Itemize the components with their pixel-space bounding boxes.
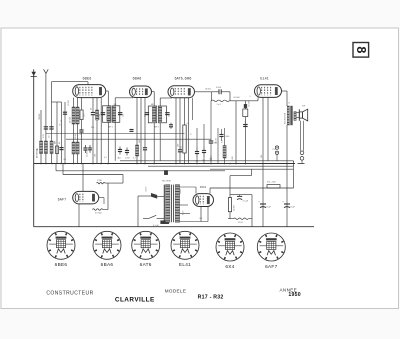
line capacitor 0.1uF: [161, 221, 169, 224]
wire: [136, 156, 138, 164]
svg-text:0,1: 0,1: [222, 140, 224, 143]
HT rail upper: [120, 160, 294, 162]
wire: [267, 97, 269, 160]
capacitor C20: [209, 141, 214, 143]
output transformer core: [291, 106, 293, 125]
svg-text:0,1 µF: 0,1 µF: [153, 225, 159, 227]
svg-text:6BA6: 6BA6: [133, 77, 142, 81]
svg-text:100: 100: [178, 144, 180, 147]
wire: [96, 120, 98, 164]
tube 6AF7: [73, 191, 99, 204]
svg-text:80: 80: [59, 142, 61, 144]
wire: [302, 121, 304, 151]
trimmer C9: [91, 113, 95, 115]
wire: [107, 183, 109, 209]
svg-text:50: 50: [203, 160, 205, 162]
wire: [40, 110, 42, 164]
wire: [106, 90, 109, 92]
svg-text:300: 300: [91, 127, 94, 129]
svg-text:20.000: 20.000: [205, 89, 211, 91]
svg-text:0,5: 0,5: [64, 159, 67, 161]
wire: [151, 91, 154, 93]
schematic frame left edge: [33, 76, 35, 227]
wire: [286, 125, 288, 227]
svg-text:8: 8: [354, 46, 368, 53]
HT rail lower: [148, 165, 294, 167]
socket 6BE6: [47, 231, 75, 259]
capacitor C13: [118, 147, 122, 155]
wire: [92, 115, 94, 164]
IF transformer T2 right loop: [159, 106, 167, 123]
coil L1: [40, 141, 43, 154]
wire: [51, 82, 53, 164]
svg-text:MODELE: MODELE: [165, 288, 187, 293]
resistor VDR: [233, 218, 248, 219]
wire: [300, 121, 302, 151]
IFT1 primary coil: [107, 107, 110, 121]
svg-text:125: 125: [98, 114, 100, 117]
terminal: [300, 157, 304, 161]
capacitor C19: [202, 147, 206, 157]
svg-text:6AT6: 6AT6: [140, 262, 152, 267]
wire: [229, 176, 231, 198]
wire: [114, 98, 116, 106]
svg-text:25 µF: 25 µF: [245, 120, 247, 126]
wire: [87, 82, 89, 85]
svg-text:0,1: 0,1: [104, 157, 107, 159]
svg-text:H.P.: H.P.: [302, 106, 306, 108]
wire: [159, 123, 161, 161]
wire: [196, 158, 198, 164]
capacitor C24: [243, 125, 248, 127]
wire: [144, 150, 146, 164]
IFT2 left capacitor: [145, 113, 149, 115]
wire: [64, 102, 66, 164]
svg-text:TERRE: TERRE: [39, 113, 41, 120]
oscillator coil L4: [72, 142, 75, 154]
svg-text:MF1: MF1: [151, 104, 155, 106]
wire: [77, 154, 79, 164]
wire: [257, 97, 259, 100]
wire: [122, 175, 124, 184]
wire: [92, 98, 94, 112]
svg-text:SECTEUR: SECTEUR: [162, 181, 172, 183]
wire: [175, 98, 177, 164]
svg-text:MF 1: MF 1: [109, 127, 113, 129]
wire: [61, 102, 63, 164]
secondary tap: [180, 186, 196, 188]
capacitor C14: [125, 148, 129, 156]
wire: [115, 97, 133, 99]
IFT1 left capacitor: [101, 113, 105, 115]
wire: [114, 122, 116, 161]
svg-text:25.000: 25.000: [86, 151, 88, 157]
svg-text:0,1: 0,1: [196, 161, 199, 163]
capacitor C18: [195, 148, 199, 158]
AVC line: [46, 133, 185, 135]
padder C4: [56, 146, 59, 154]
wire: [153, 123, 155, 164]
transformer core: [171, 185, 173, 223]
wire: [55, 164, 57, 171]
wire: [250, 169, 252, 175]
AVC line 2: [66, 138, 211, 140]
socket 6BA6: [93, 231, 121, 259]
wire: [203, 157, 205, 164]
wire: [136, 98, 138, 146]
svg-text:P.U.: P.U.: [273, 149, 277, 151]
svg-text:125: 125: [123, 114, 125, 117]
svg-text:200: 200: [261, 155, 263, 158]
capacitor C12: [143, 148, 147, 150]
svg-text:6X4: 6X4: [200, 185, 206, 189]
socket 6AT6: [132, 231, 160, 259]
tube 6AT6: [168, 86, 195, 98]
svg-text:6X4: 6X4: [225, 264, 234, 269]
svg-text:EL41: EL41: [260, 77, 269, 81]
output transformer secondary: [294, 112, 296, 121]
wire: [99, 197, 104, 199]
wire: [82, 164, 84, 192]
svg-text:6,3 V: 6,3 V: [183, 210, 185, 215]
svg-text:150 + 600: 150 + 600: [267, 182, 277, 184]
wire: [262, 97, 264, 227]
page index box: [353, 43, 369, 58]
svg-text:300: 300: [139, 140, 141, 143]
capacitor C8: [80, 110, 83, 120]
transformer secondary winding: [175, 185, 179, 223]
wire: [210, 92, 212, 101]
coupling capacitor C21: [211, 89, 230, 94]
coil L3: [50, 141, 53, 154]
svg-text:6AF7: 6AF7: [58, 198, 66, 202]
svg-text:440: 440: [54, 141, 56, 144]
IFT1 right capacitor: [118, 113, 122, 115]
wire: [100, 98, 102, 164]
svg-text:R17 - R32: R17 - R32: [198, 295, 224, 301]
wire: [77, 124, 79, 142]
wire: [184, 98, 186, 125]
svg-text:125: 125: [144, 114, 146, 117]
filter capacitor 8uF: [260, 204, 266, 208]
AF line 2: [63, 174, 123, 176]
wire: [229, 100, 258, 102]
svg-text:20.000: 20.000: [70, 116, 72, 123]
svg-text:8 µF: 8 µF: [267, 207, 272, 209]
svg-text:0,5 µF: 0,5 µF: [243, 201, 249, 203]
svg-text:0,5: 0,5: [187, 123, 190, 125]
svg-text:EL41: EL41: [179, 262, 191, 267]
svg-text:50: 50: [80, 134, 82, 136]
wire: [230, 175, 251, 177]
svg-text:8 µF: 8 µF: [291, 207, 296, 209]
wire: [103, 204, 105, 210]
wire: [52, 101, 62, 103]
svg-text:2x300: 2x300: [180, 189, 182, 194]
filter capacitor 8uF: [284, 204, 290, 208]
resistor R6 bead: [244, 101, 246, 105]
svg-text:6BE6: 6BE6: [55, 262, 68, 267]
wire: [107, 91, 109, 106]
IFT1 secondary coil: [113, 107, 116, 121]
wire: [229, 92, 231, 101]
switch arm: [143, 217, 149, 219]
svg-text:50: 50: [61, 120, 63, 122]
secondary tap: [180, 213, 190, 215]
wire: [171, 97, 173, 99]
resistor R3 50k: [96, 110, 99, 120]
speaker HP: [299, 109, 307, 121]
resistor R2: [76, 107, 79, 124]
wire: [81, 120, 83, 131]
wire: [179, 152, 181, 164]
grid top wire: [52, 81, 89, 83]
wire: [62, 164, 64, 175]
resistor R10 1M: [97, 182, 105, 184]
antenna A: [44, 69, 49, 163]
svg-text:6AT6, 6M6: 6AT6, 6M6: [175, 77, 192, 81]
wire: [229, 212, 231, 219]
svg-text:V.D.R.: V.D.R.: [238, 222, 244, 224]
junction dots: [40, 163, 42, 165]
capacitor C15: [130, 130, 134, 132]
resistor R4: [136, 145, 139, 156]
capacitor C16: [169, 123, 173, 129]
coil L2: [44, 141, 47, 154]
tube 6X4: [193, 194, 214, 207]
capacitor C11: [88, 145, 92, 153]
PU terminal: [275, 151, 278, 154]
IF transformer T1 left loop: [103, 106, 112, 123]
svg-text:0,5 MΩ: 0,5 MΩ: [95, 213, 102, 215]
wire: [78, 204, 80, 227]
capacitor C22: [237, 195, 242, 200]
wire: [210, 156, 212, 161]
svg-text:2.000: 2.000: [232, 156, 234, 161]
wire: [96, 98, 98, 110]
svg-text:5-25: 5-25: [43, 134, 45, 138]
wire: [56, 102, 58, 164]
svg-text:125: 125: [169, 114, 171, 117]
resistor R1 20k: [72, 107, 75, 124]
svg-text:1.000: 1.000: [225, 136, 230, 138]
svg-text:CLARVILLE: CLARVILLE: [115, 296, 155, 303]
svg-text:50: 50: [91, 108, 93, 110]
wire: [73, 154, 75, 164]
wire: [200, 207, 202, 222]
loop wire: [230, 194, 252, 196]
trimmer CV1: [44, 127, 48, 129]
wire: [301, 160, 303, 163]
output transformer primary: [287, 106, 289, 125]
capacitor C23: [219, 135, 223, 137]
resistor R5: [223, 146, 226, 159]
svg-text:EXCITATION: EXCITATION: [284, 112, 287, 124]
svg-text:CONSTRUCTEUR: CONSTRUCTEUR: [46, 290, 93, 296]
junction capacitor: [164, 170, 167, 174]
wire: [81, 132, 83, 164]
svg-text:10.000: 10.000: [249, 100, 251, 107]
wire: [195, 91, 212, 93]
svg-text:6AF7: 6AF7: [265, 264, 277, 269]
wire: [293, 169, 295, 188]
tube 6BA6: [130, 86, 152, 98]
secondary tap: [180, 221, 208, 223]
HT branch rail: [210, 168, 294, 170]
ground bus: [34, 163, 295, 165]
IFT2 right capacitor: [165, 113, 169, 115]
wire: [73, 98, 75, 107]
svg-text:50.000: 50.000: [234, 97, 241, 99]
speaker coil lead: [296, 112, 299, 114]
transformer primary comb: [163, 185, 165, 223]
transformer primary winding: [166, 185, 170, 223]
wire: [81, 98, 83, 110]
oscillator coil L5: [76, 142, 79, 154]
IFT2 primary coil: [152, 107, 155, 122]
AF line 1: [56, 170, 225, 172]
svg-text:0,1: 0,1: [210, 159, 213, 161]
capacitor C17: [178, 150, 182, 152]
svg-text:5.000: 5.000: [216, 87, 222, 89]
potentiometer P1: [183, 125, 186, 153]
socket 6X4: [216, 233, 244, 261]
svg-text:10.000: 10.000: [75, 133, 77, 139]
capacitor C10: [83, 145, 87, 153]
svg-text:12.000: 12.000: [68, 100, 70, 106]
svg-text:5.000: 5.000: [125, 158, 130, 160]
resistor R11: [92, 209, 102, 211]
grid stopper coil: [211, 100, 229, 102]
wire: [144, 98, 146, 148]
earth electrode E: [31, 69, 37, 76]
resistor R9 box: [228, 198, 231, 212]
svg-text:220 V: 220 V: [146, 186, 148, 192]
wire: [188, 98, 190, 164]
HT feed wire: [210, 187, 294, 189]
capacitor C8b: [79, 130, 83, 132]
mains wire: [138, 195, 151, 197]
svg-text:1 µ 2: 1 µ 2: [217, 104, 221, 106]
capacitor C5: [59, 148, 63, 150]
trimmer CV2: [49, 127, 53, 129]
wire: [140, 98, 142, 164]
wire: [286, 91, 288, 106]
tube EL41: [255, 85, 282, 98]
wire: [107, 122, 109, 163]
IFT2 secondary coil: [159, 107, 162, 122]
resistor R8: [267, 185, 280, 188]
wire: [235, 101, 237, 164]
wire: [217, 128, 219, 164]
svg-text:0,1: 0,1: [133, 158, 136, 160]
svg-text:6BE6: 6BE6: [83, 77, 92, 81]
svg-text:6,3: 6,3: [200, 218, 203, 220]
socket 6AF7: [257, 233, 285, 261]
wire: [159, 98, 161, 106]
socket EL41: [171, 231, 199, 259]
IF transformer T1 right loop: [113, 106, 120, 123]
capacitor C6b: [63, 112, 67, 114]
svg-text:1 MΩ: 1 MΩ: [97, 180, 102, 182]
rail end connector: [293, 161, 295, 166]
wire: [160, 97, 172, 99]
terminal: [300, 151, 304, 155]
wire: [153, 92, 155, 107]
wire: [192, 98, 194, 120]
schematic frame bottom edge: [34, 226, 314, 228]
mains switch: [151, 193, 157, 199]
wire: [276, 155, 278, 161]
svg-text:50.000: 50.000: [234, 205, 236, 211]
svg-text:0,5 M: 0,5 M: [216, 138, 218, 143]
wire: [209, 188, 211, 194]
wire: [282, 90, 288, 92]
resistor R7 box: [243, 109, 248, 117]
wire: [77, 98, 79, 107]
tube 6BE6: [73, 85, 106, 98]
svg-text:MF 2: MF 2: [155, 127, 159, 129]
wire: [73, 124, 75, 142]
svg-text:6BA6: 6BA6: [101, 262, 114, 267]
svg-text:100: 100: [94, 154, 96, 157]
svg-text:50: 50: [118, 158, 120, 160]
svg-text:1950: 1950: [288, 292, 301, 298]
IF transformer T2 left loop: [148, 106, 156, 123]
PU terminal: [275, 146, 278, 149]
wire: [179, 98, 181, 150]
secondary tap: [180, 204, 188, 206]
wire: [251, 195, 253, 227]
